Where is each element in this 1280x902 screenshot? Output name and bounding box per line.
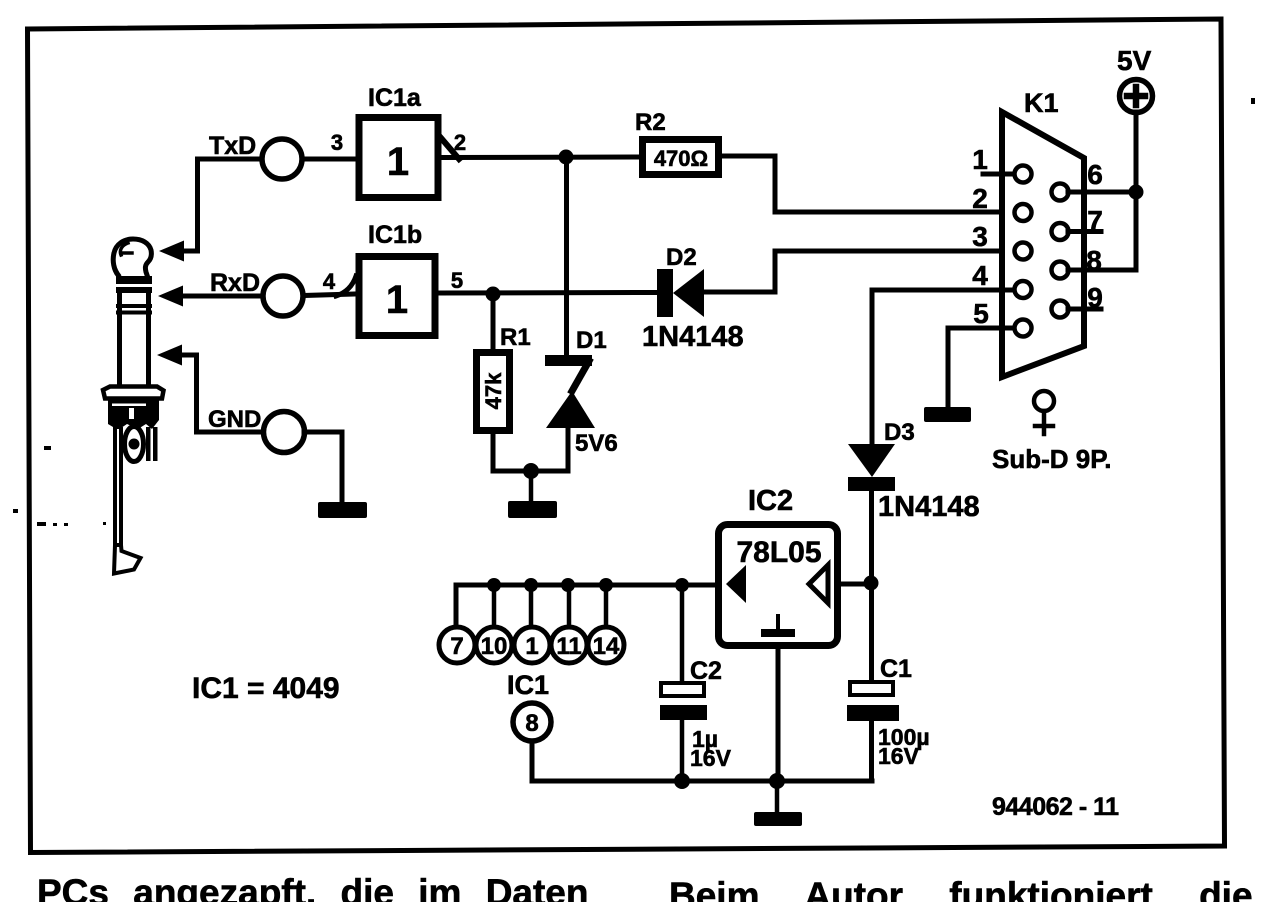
wire IC2 ground down (776, 649, 781, 781)
svg-text:470Ω: 470Ω (654, 146, 708, 171)
wire junction down to C1 (869, 583, 874, 682)
K1 right pin number labels (1086, 159, 1103, 313)
zener diode D1 5V6 (545, 355, 595, 428)
value 1u 16V (690, 726, 732, 771)
ground bar at K1 pin 5 (924, 407, 971, 422)
svg-text:RxD: RxD (210, 269, 260, 297)
svg-text:1: 1 (525, 633, 538, 660)
wire stub to bottom ground (775, 781, 780, 813)
wire supply rail to IC2 input (456, 585, 715, 628)
inverter slash at IC1a output (441, 138, 459, 159)
ground bar (GND net) (318, 502, 367, 518)
IC1 pin 8 circle (513, 703, 551, 741)
arrow to jack ring (RxD) (158, 286, 183, 307)
ground bar below R1/D1 (508, 501, 557, 518)
pin 3 label (331, 130, 343, 155)
svg-text:1N4148: 1N4148 (878, 491, 980, 523)
arrow to jack sleeve (GND) (157, 345, 182, 366)
svg-text:R1: R1 (500, 324, 531, 351)
label D3 (884, 419, 915, 446)
svg-text:4: 4 (972, 260, 988, 291)
svg-text:5: 5 (973, 298, 989, 329)
svg-text:1N4148: 1N4148 (642, 321, 744, 353)
svg-text:11: 11 (556, 633, 581, 660)
label GND (208, 406, 261, 433)
IC2 internal ground pin (776, 616, 780, 632)
scan noise specks (13, 98, 1255, 526)
jack plug cable tail with hook (114, 429, 141, 574)
resistor R2 (643, 140, 719, 175)
svg-text:16V: 16V (878, 743, 920, 769)
svg-text:C2: C2 (690, 657, 722, 685)
jack plug sleeve shaft (120, 293, 149, 387)
svg-text:5V6: 5V6 (575, 430, 618, 457)
svg-text:7: 7 (450, 633, 463, 660)
label C1 (880, 655, 912, 683)
label RxD (210, 269, 260, 297)
svg-text:R2: R2 (635, 109, 666, 136)
wire stub to ground below R1/D1 (529, 471, 534, 503)
svg-text:1: 1 (387, 140, 409, 184)
svg-text:6: 6 (1087, 159, 1103, 190)
capacitor C1 (850, 682, 893, 695)
junction node C2 ground (674, 773, 690, 789)
wire K1 pin 4 to D3 (872, 290, 1014, 444)
label R2 (635, 109, 666, 136)
label IC2 (748, 485, 793, 517)
svg-text:16V: 16V (690, 745, 732, 771)
K1 pin 8 stub to 5V branch (1068, 268, 1136, 273)
svg-text:14: 14 (593, 633, 620, 660)
figure number 944062 - 11 (992, 793, 1119, 821)
wire junction down to D1 (564, 157, 569, 357)
junction node IC2 ground (769, 773, 785, 789)
label K1 (1024, 88, 1059, 118)
K1 pin circles left 1-5 (1015, 166, 1032, 337)
node TxD terminal circle (262, 139, 302, 179)
pin number 8 (525, 710, 538, 737)
svg-text:C1: C1 (880, 655, 912, 683)
label Sub-D 9P. (992, 444, 1111, 474)
node GND terminal circle (264, 412, 305, 453)
IC2 output arrow (hollow) (809, 565, 828, 603)
jack plug solder lug loop (125, 427, 144, 462)
pin 4 label (323, 269, 336, 294)
svg-text:D3: D3 (884, 419, 915, 446)
svg-text:GND: GND (208, 406, 261, 433)
wire TxD circle to corner and down to arrow (184, 159, 262, 251)
svg-text:4: 4 (323, 269, 336, 294)
IC1 supply pin circles 7 10 1 11 14 (439, 627, 624, 663)
supply 5V symbol (1120, 80, 1153, 113)
K1 pin circles right 6-9 (1052, 184, 1069, 318)
svg-text:Beim Autor funktioniert die: Beim Autor funktioniert die (669, 875, 1253, 902)
svg-text:47k: 47k (481, 372, 506, 409)
junction node at 871,583 (864, 576, 879, 591)
wire D3 down to junction (869, 491, 874, 583)
ground bar bottom center (754, 812, 802, 826)
voltage regulator IC2 box (719, 525, 838, 646)
wire junction down to R1 (491, 294, 496, 350)
svg-text:1: 1 (386, 278, 408, 322)
wire RxD arrow to circle (182, 294, 262, 299)
svg-text:IC1 = 4049: IC1 = 4049 (192, 672, 340, 705)
svg-text:TxD: TxD (209, 132, 256, 160)
wire K1 pin 5 to ground (948, 328, 1014, 408)
svg-text:IC1: IC1 (507, 670, 549, 700)
node RxD terminal circle (263, 276, 303, 316)
svg-text:D1: D1 (576, 327, 607, 354)
svg-text:1: 1 (972, 144, 988, 175)
wire IC2 output to junction (841, 582, 871, 587)
value 470 ohm (654, 146, 708, 171)
value 1N4148 (D2) (642, 321, 744, 353)
jack plug prongs (146, 427, 158, 461)
junction node at 493,294 (486, 287, 501, 302)
op-amp gate IC1a box (359, 118, 438, 198)
capacitor C2 (680, 585, 685, 684)
K1 left pin number labels (972, 144, 989, 329)
op-amp gate IC1b box (359, 257, 435, 336)
input curve at IC1b (336, 276, 356, 296)
K1 shell symbol (1034, 391, 1054, 434)
wire IC1b pin 5 to D2 (438, 290, 658, 296)
label D1 (576, 327, 607, 354)
svg-text:PCs angezapft, die im Daten: PCs angezapft, die im Daten (37, 872, 589, 902)
K1 pin 1 stub (983, 172, 1015, 177)
svg-text:3: 3 (972, 221, 988, 252)
junction nodes on supply rail (487, 578, 689, 592)
K1 pin 9 stub (1068, 307, 1101, 312)
arrow to jack tip (TxD) (159, 241, 184, 262)
wire 5V down to pin8 level (1134, 112, 1139, 270)
IC2 input arrow (solid) (726, 565, 746, 603)
wire RxD circle to IC1b pin 4 (303, 294, 356, 296)
svg-text:10: 10 (481, 633, 508, 660)
wire GND arrow corner down to circle (181, 355, 263, 432)
svg-text:944062 - 11: 944062 - 11 (992, 793, 1119, 821)
label 5V (1117, 45, 1152, 76)
label IC1a (368, 84, 422, 112)
svg-text:IC1a: IC1a (368, 84, 422, 112)
wire D2 to K1 pin 3 (704, 251, 1014, 292)
wire R1 bottom (493, 426, 568, 471)
svg-text:3: 3 (331, 130, 343, 155)
resistor R1 (477, 353, 510, 431)
label IC1 (507, 670, 549, 700)
svg-text:78L05: 78L05 (736, 536, 821, 569)
value 5V6 (575, 430, 618, 457)
value 100u 16V (878, 724, 930, 769)
caption text column 2 (669, 875, 1253, 902)
jack plug body (108, 399, 159, 430)
wire D1 anode down (566, 428, 571, 471)
connector K1 trapezoid (1002, 112, 1084, 377)
label C2 (690, 657, 722, 685)
junction node at 566,157 (559, 150, 574, 165)
gate symbol 1 (IC1a) (387, 140, 409, 184)
value 1N4148 (D3) (878, 491, 980, 523)
svg-text:2: 2 (972, 183, 988, 214)
value 78L05 (736, 536, 821, 569)
wire IC1a pin 2 to R2 (443, 155, 639, 161)
wire pin 8 to ground rail (532, 741, 872, 781)
jack plug J1 tip (113, 239, 151, 275)
gate symbol 1 (IC1b) (386, 278, 408, 322)
pin 2 label (454, 130, 466, 155)
svg-text:IC1b: IC1b (368, 221, 422, 249)
svg-text:5V: 5V (1117, 45, 1152, 76)
svg-text:Sub-D 9P.: Sub-D 9P. (992, 444, 1111, 474)
junction node at 1136,192 (1129, 185, 1144, 200)
note IC1 = 4049 (192, 672, 340, 705)
svg-text:5: 5 (451, 268, 463, 293)
value 47k (rotated) (481, 372, 506, 409)
caption text column 1 (37, 872, 589, 902)
K1 pin 6 stub to 5V (1068, 190, 1136, 195)
label IC1b (368, 221, 422, 249)
svg-text:8: 8 (525, 710, 538, 737)
junction node at 531,471 (523, 463, 539, 479)
diode D2 1N4148 (657, 269, 704, 317)
jack plug flange (103, 387, 164, 399)
wire GND circle to ground (304, 432, 342, 503)
wire TxD circle to IC1a pin 3 (302, 157, 356, 162)
wire stubs rail to IC1 supply pins (494, 585, 606, 627)
diode D3 1N4148 (848, 444, 895, 491)
K1 pin 7 stub (1068, 229, 1101, 234)
pin 5 label (451, 268, 463, 293)
pin numbers 7 10 1 11 14 (450, 633, 620, 660)
label TxD (209, 132, 256, 160)
jack plug ring bands (116, 276, 152, 315)
svg-text:IC2: IC2 (748, 485, 793, 517)
svg-text:D2: D2 (666, 244, 697, 271)
svg-text:K1: K1 (1024, 88, 1059, 118)
label D2 (666, 244, 697, 271)
label R1 (500, 324, 531, 351)
wire R2 to K1 pin 2 (722, 156, 1014, 212)
